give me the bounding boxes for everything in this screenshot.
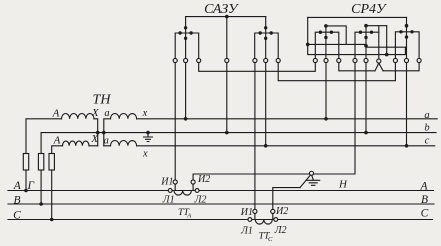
- junction dot H1-T5 vertical: [364, 44, 368, 48]
- svg-text:b: b: [424, 123, 429, 134]
- junction dot SR4U el1 voltage top: [324, 24, 328, 28]
- junction dot fuse1-busA: [24, 189, 28, 193]
- SR4U element 1 voltage vertical: [325, 26, 327, 58]
- svg-text:х: х: [142, 108, 148, 119]
- svg-text:В: В: [421, 194, 428, 206]
- meter SR4U top line: [308, 16, 407, 18]
- terminal S1: [173, 58, 177, 62]
- wire SR4U T5 down to line b: [365, 63, 367, 133]
- meter SAZU top line: [186, 16, 266, 18]
- wire SR4U T4 down to neutral wire N: [314, 63, 355, 174]
- svg-text:И1: И1: [240, 207, 253, 218]
- terminal CT A I2: [191, 180, 195, 184]
- terminal T4: [353, 58, 357, 62]
- SR4U jumper HB lower: [308, 44, 406, 54]
- transformer TH secondary winding 1 (a-x): [110, 114, 136, 119]
- polarity dots SR4U element 1: [319, 31, 322, 34]
- svg-text:В: В: [13, 195, 20, 207]
- terminal T8: [404, 58, 408, 62]
- terminal T6 apex: [377, 59, 381, 63]
- ground at TH secondary midpoint: [144, 133, 153, 142]
- SR4U apex vertical wire: [378, 26, 380, 59]
- wire line b: [41, 132, 436, 134]
- junction dot TH a to line b: [102, 131, 106, 135]
- junction dot S6-line c: [264, 144, 268, 148]
- terminal CT C I1: [253, 209, 257, 213]
- junction dot TH X to line b: [96, 131, 100, 135]
- polarity dots SAZU element 2: [264, 26, 267, 29]
- svg-text:А: А: [53, 134, 61, 146]
- SR4U element 1 current bar: [315, 32, 339, 58]
- wire W2: SAZU S7 to SR4U T7: [278, 63, 395, 81]
- SAZU element 1 voltage coil vertical: [185, 17, 187, 59]
- wire fuse F3 up to TH primary2 lead: [52, 146, 63, 154]
- svg-text:И1: И1: [160, 177, 173, 188]
- svg-text:Л1: Л1: [162, 195, 175, 206]
- svg-text:С: С: [421, 207, 429, 219]
- terminal S6: [264, 58, 268, 62]
- wire TH primary2 X lead: [89, 145, 98, 147]
- wire TH primary1 X lead down: [94, 119, 98, 146]
- wire TH secondary2 a lead: [104, 145, 111, 147]
- terminal CT A L1 on bus: [168, 189, 172, 193]
- terminal T2: [324, 58, 328, 62]
- terminal T9: [417, 58, 421, 62]
- CT A primary bumps: [174, 191, 191, 196]
- wire fuse F1 up to TH primary1 lead: [26, 119, 62, 154]
- polarity dots SR4U element 3: [399, 30, 402, 33]
- SR4U element 3 voltage vertical from top line: [406, 17, 408, 58]
- wire SR4U T8 down to line c: [406, 63, 408, 146]
- SR4U element 2 jumper drop wire: [386, 26, 388, 55]
- wire fuse F1 to bus A: [25, 170, 27, 191]
- svg-text:c: c: [425, 135, 430, 146]
- bus C: [8, 219, 433, 221]
- wire W1: SAZU S3 to SR4U T1: [199, 63, 316, 72]
- svg-text:Л1: Л1: [240, 226, 253, 237]
- junction dot T2-line a: [324, 117, 328, 121]
- wire SAZU S1 down to CT A I1: [174, 63, 176, 180]
- svg-text:ТН: ТН: [93, 93, 112, 108]
- terminal CT C I2: [271, 209, 275, 213]
- terminal S5: [253, 58, 257, 62]
- transformer TH primary winding 1 (A-X): [62, 114, 94, 119]
- svg-text:Г: Г: [27, 180, 35, 192]
- svg-text:X: X: [90, 133, 99, 145]
- junction dot SR4U el2 voltage top: [364, 24, 368, 28]
- svg-text:а: а: [104, 135, 109, 146]
- bus A: [8, 190, 434, 192]
- SAZU element 1 current bar: [175, 33, 199, 58]
- junction dot T5-line b: [364, 131, 368, 135]
- wire SAZU S5 down to CT C I1: [254, 63, 256, 210]
- terminal S7: [276, 58, 280, 62]
- svg-text:И2: И2: [197, 174, 210, 185]
- junction dot SR4U left edge: [306, 43, 310, 47]
- CT C secondary stubs: [255, 214, 273, 220]
- SR4U element 2 voltage-top jumper to apex: [366, 25, 387, 27]
- wire fuse F3 to bus C: [51, 170, 53, 220]
- wire TH secondary1 a lead down: [104, 119, 111, 146]
- svg-text:Л2: Л2: [194, 195, 207, 206]
- SAZU element 2 voltage coil vertical: [265, 17, 267, 59]
- junction dot SAZU top middle: [225, 15, 229, 19]
- junction dot ground line b: [146, 131, 150, 135]
- SAZU element 2 current bar: [255, 33, 279, 58]
- junction dot H3: [385, 53, 389, 57]
- svg-text:Л2: Л2: [274, 225, 287, 236]
- terminal CT A L2 on bus: [195, 189, 199, 193]
- wire fuse F2 to bus B: [40, 170, 42, 204]
- fuse F2 phase B: [38, 154, 43, 171]
- terminal CT A I1: [173, 180, 177, 184]
- svg-text:А: А: [52, 107, 60, 119]
- terminal T5: [364, 58, 368, 62]
- wire SAZU S6 down to line c: [265, 63, 267, 146]
- SAZU middle voltage terminal wire: [226, 17, 228, 59]
- wire line a: [137, 118, 438, 120]
- svg-text:САЗУ: САЗУ: [204, 2, 239, 17]
- svg-text:С: С: [268, 236, 273, 243]
- polarity dots SAZU element 1: [184, 26, 187, 29]
- SR4U left edge vertical to jumper: [307, 17, 309, 44]
- SR4U element 1 voltage-top jumper: [326, 26, 346, 45]
- SR4U element 2 current bar: [355, 32, 379, 58]
- wire SR4U T2 down to line a: [325, 63, 327, 119]
- wire N from ground node to CT A I2: [193, 174, 309, 180]
- SR4U element 3 current bar: [395, 32, 419, 59]
- terminal CT C L2 on bus: [274, 218, 278, 222]
- terminal T7: [393, 58, 397, 62]
- fuse F1 phase A: [23, 154, 28, 171]
- junction dot S4-line b: [225, 131, 229, 135]
- wire SAZU S4 down to line b: [226, 63, 228, 133]
- junction dot fuse2-busB: [39, 202, 43, 206]
- wire W4: SR4U T9 to lambda right leg: [383, 63, 419, 71]
- svg-text:И2: И2: [275, 206, 288, 217]
- svg-text:х: х: [142, 148, 148, 159]
- SR4U lambda legs at terminal T6: [375, 63, 383, 71]
- terminal T1: [313, 58, 317, 62]
- transformer TH primary winding 2 (A-X): [63, 141, 89, 146]
- bus B: [8, 203, 434, 205]
- SR4U element 2 voltage vertical: [365, 26, 367, 59]
- fuse F3 phase C: [49, 154, 54, 171]
- junction dot S2-line a: [184, 117, 188, 121]
- junction dot SR4U el3 voltage top: [405, 24, 409, 28]
- wire fuse F2 up to line b: [40, 133, 42, 154]
- svg-text:X: X: [91, 107, 100, 119]
- wire SAZU S2 down to line a: [185, 63, 187, 119]
- SR4U jumper H1 to line-b tap and element 3 side: [308, 44, 407, 47]
- junction dot T8-line c: [405, 144, 409, 148]
- svg-text:a: a: [424, 110, 429, 121]
- junction dot fuse3-busC: [50, 218, 54, 222]
- wire line c: [137, 145, 435, 147]
- node circle at ground point: [309, 171, 313, 175]
- svg-text:а: а: [104, 108, 109, 119]
- terminal S2: [184, 58, 188, 62]
- wire W3: SR4U T3 to lambda left leg: [339, 63, 375, 71]
- diagonal wire to ground node: [300, 176, 310, 188]
- CT A secondary stubs: [175, 184, 193, 190]
- svg-text:СР4У: СР4У: [351, 2, 387, 17]
- svg-text:Н: Н: [338, 179, 348, 191]
- ground symbol at node: [307, 176, 320, 185]
- terminal CT C L1 on bus: [248, 218, 252, 222]
- terminal T3: [337, 58, 341, 62]
- svg-text:А: А: [13, 180, 22, 192]
- CT C primary bumps: [255, 220, 272, 225]
- transformer TH secondary winding 2 (a-x): [110, 141, 136, 146]
- polarity dots SR4U element 2: [359, 31, 362, 34]
- svg-text:А: А: [186, 212, 192, 219]
- terminal S3: [197, 58, 201, 62]
- svg-text:А: А: [419, 180, 428, 192]
- svg-text:С: С: [13, 210, 21, 222]
- wire CT C I2 up and right: [273, 188, 300, 210]
- terminal S4: [225, 58, 229, 62]
